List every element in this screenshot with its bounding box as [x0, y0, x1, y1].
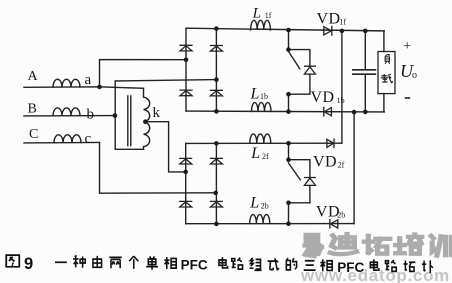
svg-text:c: c	[85, 131, 92, 147]
svg-text:B: B	[28, 102, 37, 117]
svg-text:2b: 2b	[337, 211, 345, 220]
svg-text:+: +	[403, 39, 411, 54]
svg-text:L: L	[249, 195, 259, 212]
svg-text:2f: 2f	[262, 152, 269, 161]
svg-text:VD: VD	[313, 153, 337, 170]
svg-text:VD: VD	[311, 89, 335, 106]
svg-text:2f: 2f	[338, 160, 345, 169]
svg-text:1b: 1b	[337, 96, 345, 105]
svg-text:2b: 2b	[261, 202, 269, 211]
svg-text:k: k	[153, 105, 161, 121]
svg-text:A: A	[28, 69, 39, 84]
svg-text:a: a	[85, 72, 92, 88]
svg-text:1f: 1f	[339, 18, 346, 27]
svg-text:VD: VD	[317, 11, 341, 28]
svg-text:L: L	[252, 6, 261, 22]
svg-text:b: b	[87, 107, 95, 123]
svg-text:L: L	[250, 145, 260, 162]
svg-text:1b: 1b	[260, 92, 268, 101]
svg-text:9: 9	[24, 255, 33, 273]
svg-text:PFC: PFC	[337, 260, 364, 275]
svg-text:o: o	[412, 70, 417, 81]
svg-text:C: C	[29, 127, 38, 142]
svg-text:L: L	[250, 85, 260, 102]
svg-text:PFC: PFC	[181, 257, 208, 272]
svg-text:1f: 1f	[265, 11, 272, 20]
